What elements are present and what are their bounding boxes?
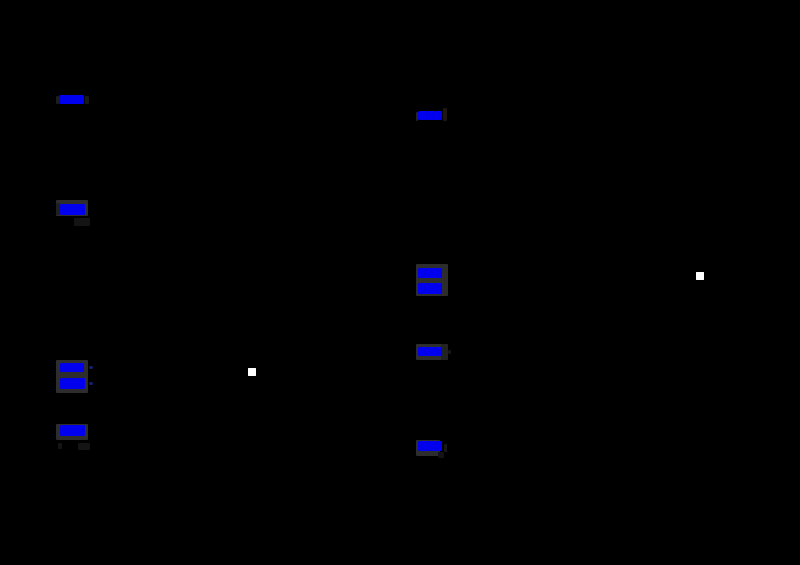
- value label of V1 (blue link in gray box): [0, 0, 800, 1]
- value label of V2 (two-line blue link in gray box): [0, 0, 800, 1]
- wire: [469, 60, 471, 100]
- value label of R2 (two-line blue link in gray box): [0, 0, 800, 1]
- resistor R2: [104, 350, 116, 394]
- switch S1 handle (white square): [248, 368, 256, 376]
- value label of R3 (blue link text): [0, 0, 800, 1]
- value label of C2 (blue link in gray box): [0, 0, 800, 1]
- resistor R4: [464, 335, 476, 361]
- wire: [469, 361, 471, 430]
- wire: [110, 60, 380, 372]
- switch S2 handle (white square): [696, 272, 704, 280]
- switch S2: [704, 275, 740, 277]
- resistor R3: [464, 100, 476, 126]
- switch S1: [252, 371, 380, 373]
- battery V1: [98, 195, 122, 219]
- wire: [109, 219, 111, 350]
- capacitor C1: [100, 415, 120, 445]
- node A: [378, 370, 383, 375]
- resistor R1: [104, 85, 116, 111]
- value label of R4 (blue link in gray box): [0, 0, 800, 1]
- wire: [470, 460, 740, 510]
- wire: [469, 126, 471, 255]
- wire: [110, 445, 380, 500]
- value label of R1 (blue link text): [0, 0, 800, 1]
- wire: [109, 394, 111, 415]
- wire: [469, 293, 471, 335]
- wire: [379, 372, 381, 500]
- wire: [470, 60, 740, 276]
- node B: [738, 274, 743, 279]
- wire: [109, 111, 111, 195]
- wire: [109, 60, 111, 85]
- value label of C1 (blue link in gray box): [0, 0, 800, 1]
- capacitor C2: [460, 430, 480, 460]
- battery V2: [458, 255, 482, 293]
- wire: [739, 276, 741, 510]
